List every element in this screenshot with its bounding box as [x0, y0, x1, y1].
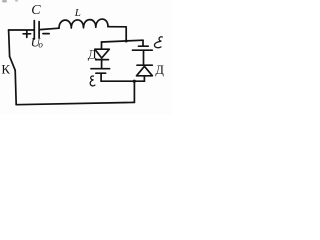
svg-text:Д: Д — [155, 63, 164, 77]
svg-text:Д: Д — [88, 46, 97, 61]
svg-text:o: o — [38, 39, 43, 49]
svg-text:К: К — [1, 62, 10, 77]
svg-text:L: L — [74, 7, 81, 19]
svg-text:C: C — [31, 3, 41, 18]
